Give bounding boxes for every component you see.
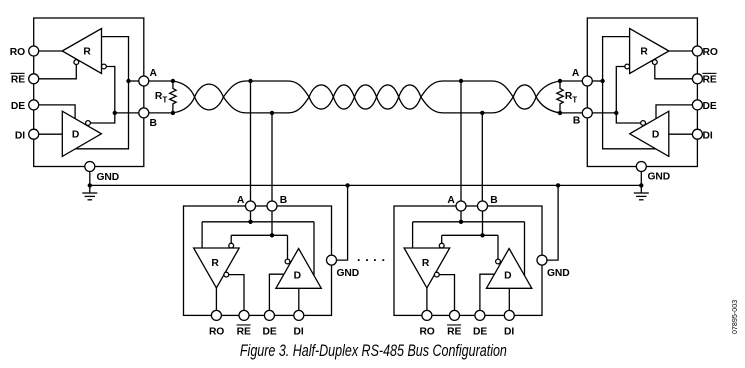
wire R output to RO (U4) [426, 288, 428, 311]
svg-text:RO: RO [209, 326, 224, 337]
bus lens 1 [195, 84, 224, 110]
pin A (U4) [456, 201, 466, 211]
svg-text:GND: GND [337, 268, 360, 279]
wire A to D output (U4) [524, 222, 526, 276]
bus lens 4 [354, 85, 376, 109]
junction GND U2 on rail [639, 183, 643, 187]
node A junction U3 [248, 220, 252, 224]
pin DI (U3) [294, 310, 304, 320]
svg-text:DI: DI [703, 131, 713, 142]
driver D (U1) [62, 111, 101, 156]
pin RO (U3) [211, 310, 221, 320]
node B junction U4 [480, 233, 484, 237]
pin RE (U1) [29, 74, 39, 84]
svg-text:D: D [72, 130, 79, 141]
wire R output to RO (U3) [215, 288, 217, 311]
wire A to D output (U3) [313, 222, 315, 276]
pin B (U2) [582, 108, 592, 118]
svg-text:GND: GND [547, 268, 570, 279]
pin A (U2) [582, 76, 592, 86]
receiver R (U1) [62, 29, 101, 74]
pin GND (U3) [327, 255, 337, 265]
bus big lens 2 [421, 81, 513, 113]
wire node B to pin B [115, 112, 144, 114]
wire bus tap A2 down to U4 [460, 81, 462, 201]
svg-text:D: D [294, 271, 301, 282]
wire RE to R enable bubble [39, 65, 77, 79]
bubble R inverting input (U2) [625, 64, 630, 69]
junction RT1 bottom [171, 111, 175, 115]
wire node A to pin A [129, 80, 144, 82]
svg-text:A: A [150, 68, 158, 79]
ellipsis dots between U3 and U4 [358, 259, 384, 261]
wire D inv output to node B (U2) [616, 113, 640, 123]
junction GND U1 on rail [88, 183, 92, 187]
pin B (U3) [267, 201, 277, 211]
svg-text:DI: DI [15, 131, 25, 142]
wire node B to pin B (U2) [587, 112, 616, 114]
wire node A to pin A (U2) [587, 80, 602, 82]
ground symbol left [82, 185, 97, 199]
pin GND (U4) [537, 255, 547, 265]
svg-text:B: B [573, 115, 580, 126]
wire node B line (U3) [231, 234, 287, 236]
bottom-right transceiver U4 (translated copy) [394, 183, 560, 320]
wire node A line (U3) [202, 221, 314, 223]
wire bus tap B1 down to U3 [271, 113, 273, 201]
pin DI (U1) [29, 129, 39, 139]
driver D (U2) [630, 111, 669, 156]
wire R noninv input to node A [102, 37, 129, 81]
wire B U1 to RT1 [149, 112, 173, 114]
pin RE (U2) [692, 74, 702, 84]
wire D output to node A (U2) [603, 81, 656, 149]
svg-text:07895-003: 07895-003 [730, 300, 739, 334]
bus lens 2 [309, 85, 333, 109]
svg-text:DI: DI [294, 326, 304, 337]
overline RE U1 [11, 73, 25, 74]
wire node A line (U4) [413, 221, 525, 223]
wire R inv input to node B (U2) [616, 67, 625, 113]
bottom-left transceiver U3 [184, 183, 350, 320]
pin DE (U2) [692, 100, 702, 110]
wire B to R inv input (U4) [441, 235, 443, 243]
termination resistor RT1 [170, 81, 176, 113]
svg-text:DE: DE [11, 101, 25, 112]
bubble R inverting input (U3) [229, 243, 234, 248]
bubble R inverting input [102, 64, 107, 69]
wire pin B to node B (U3) [271, 211, 273, 236]
svg-text:A: A [572, 68, 580, 79]
junction RT1 top [171, 79, 175, 83]
pin DE (U4) [475, 310, 485, 320]
junction bus tap A2 [459, 79, 463, 83]
svg-text:R: R [83, 47, 91, 58]
wire A to R noninv input (U3) [201, 222, 203, 248]
box U1 [34, 18, 144, 167]
wire DE to D enable (U4) [480, 274, 495, 310]
bubble R inverting input (U4) [439, 243, 444, 248]
bubble D inverting output [86, 121, 91, 126]
wire GND U4 to rail [547, 185, 558, 260]
pin DI (U4) [504, 310, 514, 320]
svg-text:T: T [572, 95, 577, 104]
pin DI (U2) [692, 129, 702, 139]
wire GND U3 to rail [336, 185, 347, 260]
overline RE U4 [447, 324, 461, 325]
pin A (U3) [246, 201, 256, 211]
node A junction U1 [126, 79, 130, 83]
pin B (U1) [139, 108, 149, 118]
wire DI to D input (U4) [508, 288, 510, 310]
svg-text:RO: RO [10, 47, 25, 58]
wire RT2 to B U2 [560, 112, 583, 114]
wire RE to R enable bubble (U2) [655, 65, 693, 79]
svg-text:B: B [150, 118, 157, 129]
wire GND U2 down [640, 171, 642, 185]
junction GND U4 on rail [556, 183, 560, 187]
pin RO (U4) [422, 310, 432, 320]
svg-text:RO: RO [419, 326, 434, 337]
wire node B line (U4) [442, 234, 498, 236]
wire bus tap B2 down to U4 [481, 113, 483, 201]
wire D output to node A [75, 81, 128, 149]
wire RE to R enable (U3) [229, 275, 244, 311]
wire RO to R apex (U2) [669, 50, 693, 52]
svg-text:GND: GND [648, 172, 671, 183]
wire B to R inv input (U3) [230, 235, 232, 243]
receiver R (U2) [630, 29, 669, 74]
svg-text:RE: RE [237, 326, 251, 337]
bubble D inverting output (U3) [285, 259, 290, 264]
wire A U1 to RT1 [149, 80, 173, 82]
svg-text:DI: DI [504, 326, 514, 337]
pin RO (U1) [29, 46, 39, 56]
junction RT2 bottom [558, 111, 562, 115]
bus right end curves [536, 81, 560, 113]
bus big lens 1 [223, 81, 309, 113]
svg-text:R: R [640, 47, 648, 58]
svg-text:GND: GND [97, 172, 120, 183]
wire DE to D enable [39, 105, 76, 118]
wire DE to D enable (U2) [656, 105, 693, 118]
wire D inv output to node B [90, 113, 114, 123]
pin GND (U2) [636, 162, 646, 172]
svg-text:DE: DE [263, 326, 277, 337]
box U4 [394, 206, 542, 315]
wire R inv input to node B [106, 67, 115, 113]
wire B to D inv output (U3) [287, 235, 289, 259]
svg-text:B: B [490, 195, 497, 206]
bubble R enable (U2) [652, 60, 657, 65]
svg-text:RE: RE [11, 75, 25, 86]
junction bus tap B1 [270, 111, 274, 115]
receiver R (U4) [404, 248, 450, 288]
junction bus tap B2 [480, 111, 484, 115]
svg-text:A: A [237, 195, 245, 206]
wire A to R noninv input (U4) [412, 222, 414, 248]
node B junction U1 [113, 111, 117, 115]
junction GND U3 on rail [345, 183, 349, 187]
ground symbol right [634, 185, 649, 199]
svg-text:B: B [280, 195, 287, 206]
wire RO to R apex [39, 50, 63, 52]
bus lens 3 [333, 85, 354, 109]
svg-text:DE: DE [703, 101, 717, 112]
overline RE U2 [703, 73, 717, 74]
bubble R enable (U4) [434, 272, 439, 277]
pin B (U4) [478, 201, 488, 211]
junction bus tap A1 [248, 79, 252, 83]
pin RE (U4) [450, 310, 460, 320]
node A junction U2 [600, 79, 604, 83]
pin RO (U2) [692, 46, 702, 56]
bubble R enable (U3) [224, 272, 229, 277]
wire RE to R enable (U4) [439, 275, 454, 311]
receiver R (U3) [194, 248, 240, 288]
termination resistor RT2 [557, 81, 563, 113]
svg-text:D: D [652, 130, 659, 141]
pin RE (U3) [239, 310, 249, 320]
pin DE (U3) [264, 310, 274, 320]
bubble D inverting output (U4) [496, 259, 501, 264]
svg-text:R: R [422, 258, 430, 269]
svg-text:RE: RE [703, 75, 717, 86]
svg-text:RO: RO [703, 47, 718, 58]
wire pin B to node B (U4) [482, 211, 484, 236]
wire RT2 to A U2 [560, 80, 583, 82]
wire DI to D input (U2) [669, 133, 693, 135]
bus twisted pair: left end curves [173, 81, 195, 113]
overline RE U3 [237, 324, 251, 325]
wire pin A to node A (U4) [460, 211, 462, 222]
bubble R enable [74, 60, 79, 65]
bus lens 7 [513, 85, 536, 109]
wire DI to D input (U3) [298, 288, 300, 310]
box U3 [184, 206, 332, 315]
left transceiver U1 [29, 18, 149, 200]
wire DI to D input [39, 133, 63, 135]
svg-text:A: A [447, 195, 455, 206]
svg-text:RE: RE [447, 326, 461, 337]
svg-text:D: D [504, 271, 511, 282]
bubble D inverting output (U2) [641, 121, 646, 126]
wire DE to D enable (U3) [269, 274, 284, 310]
pin A (U1) [139, 76, 149, 86]
junction RT2 top [558, 79, 562, 83]
node B junction U3 [270, 233, 274, 237]
svg-text:DE: DE [473, 326, 487, 337]
svg-text:Figure 3. Half-Duplex RS-485 B: Figure 3. Half-Duplex RS-485 Bus Configu… [240, 342, 507, 360]
bus lens 6 [399, 85, 421, 109]
bus lens 5 [377, 85, 399, 109]
box U2 [587, 18, 697, 167]
wire bus tap A1 down to U3 [250, 81, 252, 201]
node A junction U4 [459, 220, 463, 224]
wire GND U1 down [89, 171, 91, 185]
right transceiver U2 (mirrored) [582, 18, 702, 200]
svg-text:R: R [211, 258, 219, 269]
pin GND (U1) [85, 162, 95, 172]
svg-text:T: T [163, 95, 168, 104]
wire B to D inv output (U4) [497, 235, 499, 259]
node B junction U2 [614, 111, 618, 115]
wire pin A to node A (U3) [250, 211, 252, 222]
pin DE (U1) [29, 100, 39, 110]
GND rail wire [90, 184, 642, 186]
driver D (U3) [276, 249, 321, 289]
wire R noninv input to node A (U2) [603, 37, 630, 81]
driver D (U4) [486, 249, 531, 289]
